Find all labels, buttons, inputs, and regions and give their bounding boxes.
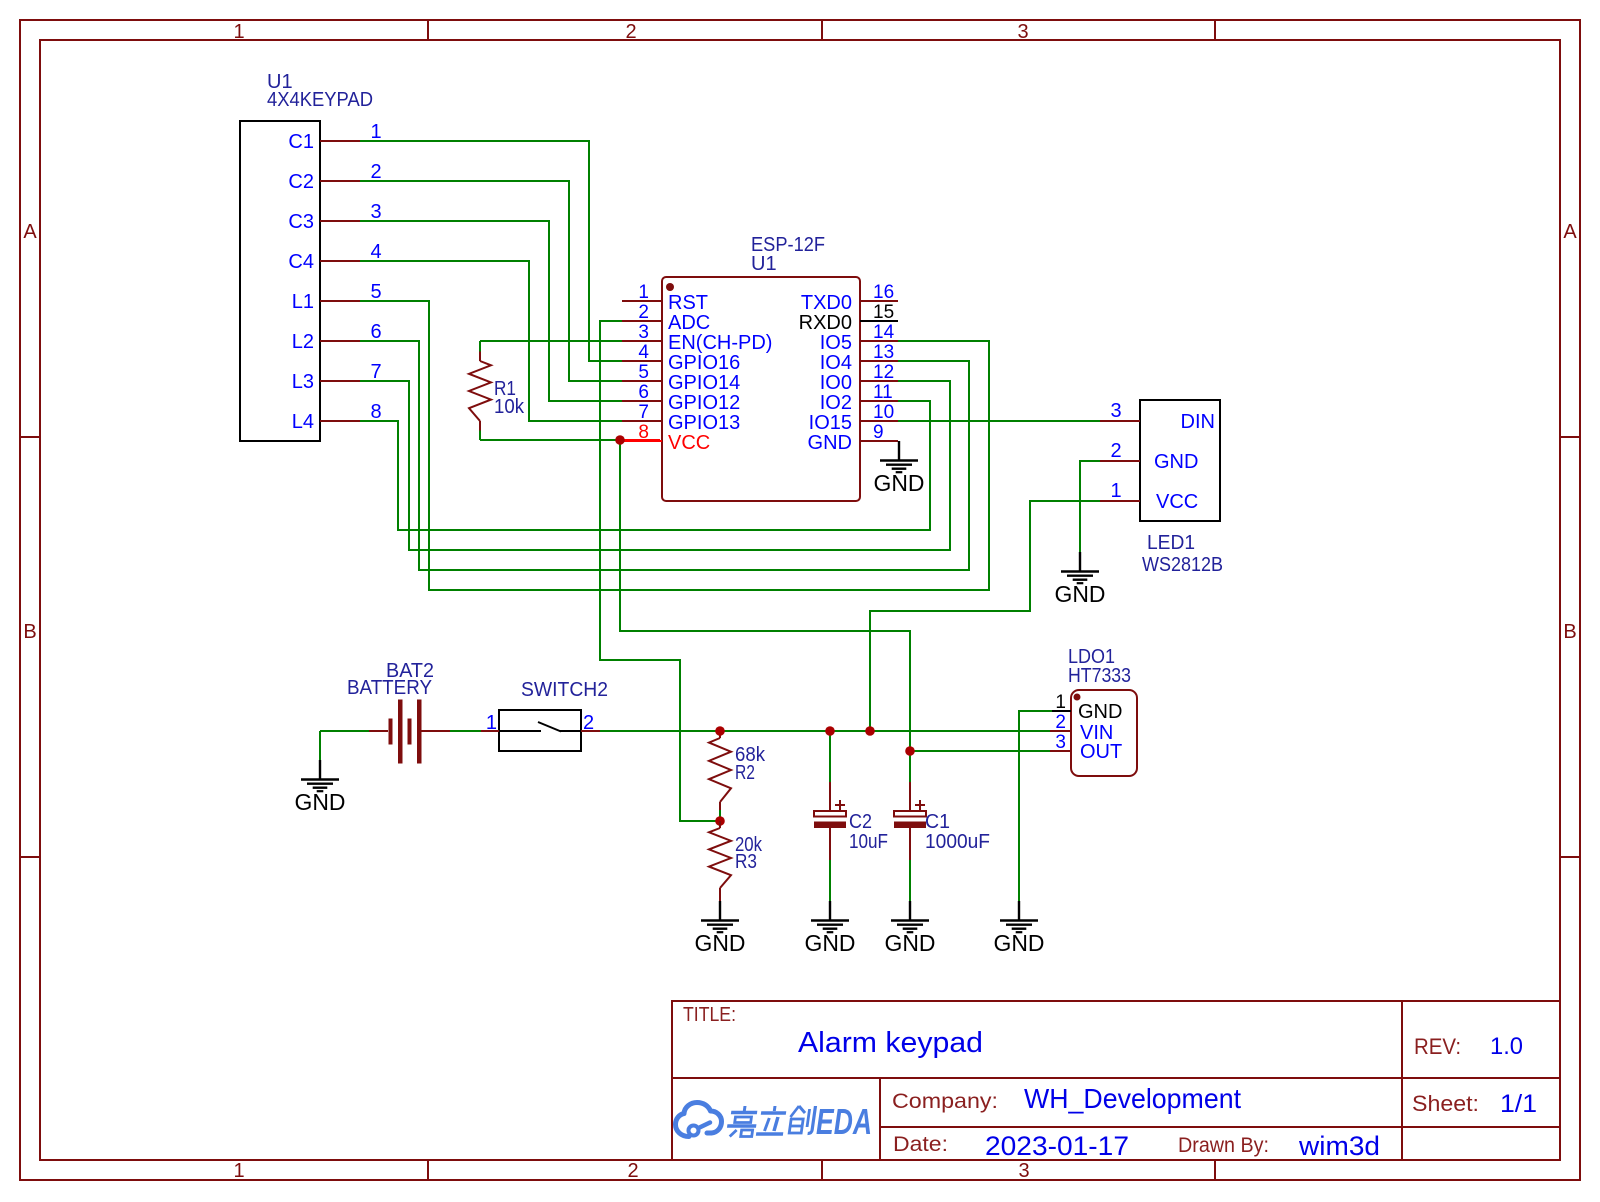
svg-text:GND: GND [805, 930, 856, 956]
keypad pin stub C2 (pin 2) [320, 180, 360, 182]
junction VBAT at LED1 VCC drop [865, 726, 875, 736]
wire L3 keypad pin7 to ESP IO0 [360, 381, 950, 550]
wire R2 bottom to divider node [719, 810, 721, 821]
svg-text:GND: GND [994, 930, 1045, 956]
svg-text:2: 2 [1055, 712, 1066, 733]
title block outline [672, 1001, 1560, 1160]
resistor R2 68k [719, 731, 721, 738]
svg-text:C1: C1 [288, 131, 314, 153]
keypad pin stub L3 (pin 7) [320, 380, 360, 382]
svg-text:IO2: IO2 [820, 392, 852, 414]
svg-text:IO15: IO15 [809, 412, 852, 434]
wire L1 keypad pin5 to ESP IO5 [360, 301, 989, 590]
JLC EDA logo cloud icon [676, 1103, 722, 1137]
ESP-12F pin stub 4 GPIO16 [622, 360, 662, 362]
svg-text:DIN: DIN [1181, 411, 1215, 433]
junction divider node R2/R3 [715, 816, 725, 826]
svg-text:GND: GND [295, 789, 346, 815]
svg-text:R3: R3 [735, 851, 757, 873]
wire R1 bottom to VCC node [480, 439, 618, 441]
svg-text:TITLE:: TITLE: [683, 1004, 736, 1026]
svg-text:3: 3 [370, 201, 381, 223]
frame bottom tick x=428 [427, 1160, 429, 1180]
frame right tick y=857 [1560, 856, 1580, 858]
svg-text:2: 2 [1110, 440, 1121, 462]
svg-text:3: 3 [1110, 400, 1121, 422]
wire VCC node down to 3V3 rail [620, 444, 910, 751]
svg-text:8: 8 [370, 401, 381, 423]
svg-text:WS2812B: WS2812B [1142, 554, 1223, 576]
svg-text:10: 10 [873, 402, 894, 423]
resistor R1 10k [479, 341, 481, 352]
svg-text:3: 3 [1055, 732, 1066, 753]
switch SWITCH2 pin 2 stub [581, 730, 600, 732]
ESP-12F pin stub 3 EN(CH-PD) [622, 340, 662, 342]
svg-text:A: A [23, 221, 37, 243]
svg-text:VCC: VCC [668, 432, 710, 454]
wire R1 top to ESP EN(CH-PD) [480, 340, 622, 342]
svg-text:4: 4 [638, 342, 649, 363]
wire LED1 VCC to VBAT rail [870, 501, 1100, 731]
svg-text:GND: GND [885, 930, 936, 956]
svg-text:C1: C1 [925, 811, 950, 833]
keypad pin stub L2 (pin 6) [320, 340, 360, 342]
svg-text:B: B [1563, 621, 1576, 643]
svg-text:9: 9 [873, 422, 884, 443]
ESP-12F pin stub 9 GND [860, 440, 898, 442]
ESP-12F pin stub 14 IO5 [860, 340, 898, 342]
wire battery negative to ground [320, 730, 369, 732]
wire L2 keypad pin6 to ESP IO4 [360, 341, 969, 570]
frame top tick x=428 [427, 20, 429, 40]
svg-text:LED1: LED1 [1147, 532, 1195, 554]
svg-text:VCC: VCC [1156, 491, 1198, 513]
svg-text:GND: GND [1078, 701, 1122, 723]
svg-text:GPIO16: GPIO16 [668, 352, 740, 374]
ground symbol at C2 [811, 901, 849, 932]
svg-text:1000uF: 1000uF [925, 831, 990, 853]
wire down to battery ground [319, 731, 321, 760]
svg-text:HT7333: HT7333 [1068, 665, 1131, 687]
junction 3V3 rail at C1 [905, 746, 915, 756]
wire ESP ADC to R2/R3 divider node [600, 321, 716, 821]
svg-text:GND: GND [695, 930, 746, 956]
LED1 pin stub 1 VCC [1100, 500, 1140, 502]
ESP-12F pin stub 13 IO4 [860, 360, 898, 362]
wire ESP VCC pin stub red [622, 439, 660, 441]
JLC EDA logo character chuang [788, 1106, 815, 1134]
wire C3 keypad pin3 to ESP GPIO12 [360, 221, 622, 401]
LDO1 pin 2 stub VIN [1050, 730, 1071, 732]
C2 top plate [814, 811, 846, 817]
svg-text:Drawn By:: Drawn By: [1178, 1134, 1269, 1157]
title block vertical divider left of REV/Sheet column [1401, 1001, 1403, 1160]
C1 bottom lead [909, 828, 911, 860]
keypad pin stub C3 (pin 3) [320, 220, 360, 222]
svg-text:1/1: 1/1 [1500, 1090, 1537, 1118]
svg-text:6: 6 [370, 321, 381, 343]
frame bottom tick x=822 [821, 1160, 823, 1180]
keypad pin stub L4 (pin 8) [320, 420, 360, 422]
svg-text:IO0: IO0 [820, 372, 852, 394]
ground symbol at R3 [701, 901, 739, 932]
svg-text:7: 7 [638, 402, 649, 423]
svg-text:REV:: REV: [1414, 1034, 1461, 1059]
svg-text:GPIO13: GPIO13 [668, 412, 740, 434]
svg-text:GND: GND [874, 470, 925, 496]
wire C1 to ground [909, 860, 911, 901]
svg-text:RST: RST [668, 292, 708, 314]
ground symbol at ESP-12F pin 9 GND [880, 441, 918, 472]
ESP-12F pin1 marker dot [666, 283, 674, 291]
ground symbol at battery [301, 760, 339, 791]
ESP-12F pin stub 7 GPIO13 [622, 420, 662, 422]
wire C1 keypad pin1 to ESP GPIO16 [360, 141, 622, 361]
title block horizontal divider under TITLE row [672, 1077, 1560, 1079]
keypad pin stub L1 (pin 5) [320, 300, 360, 302]
JLC EDA logo character li [756, 1106, 787, 1134]
switch SWITCH2 right contact [560, 730, 581, 732]
ESP-12F pin stub 2 ADC [622, 320, 662, 322]
svg-text:L4: L4 [292, 411, 314, 433]
svg-text:GND: GND [1154, 451, 1198, 473]
title block horizontal divider under Company row [880, 1126, 1560, 1128]
svg-text:1: 1 [1110, 480, 1121, 502]
ESP-12F pin stub 15 RXD0 [860, 320, 898, 322]
ESP-12F pin stub 5 GPIO14 [622, 380, 662, 382]
C2 plus sign [835, 804, 845, 806]
frame top tick x=822 [821, 20, 823, 40]
switch SWITCH2 fixed contact [499, 730, 541, 732]
svg-text:3: 3 [638, 322, 649, 343]
switch SWITCH2 lever [538, 722, 561, 732]
svg-text:3: 3 [1018, 1160, 1029, 1182]
wire L4 keypad pin8 to ESP IO2 [360, 401, 930, 530]
svg-text:C4: C4 [288, 251, 314, 273]
svg-text:C2: C2 [288, 171, 314, 193]
wire LED1 GND pin to ground [1080, 461, 1100, 552]
ESP-12F pin stub 12 IO0 [860, 380, 898, 382]
keypad U1 body [240, 121, 320, 441]
LED1 WS2812B body [1140, 400, 1220, 521]
svg-text:GND: GND [808, 432, 852, 454]
wire LDO GND pin to ground [1019, 711, 1052, 901]
ESP-12F U1 body [662, 277, 860, 501]
svg-text:WH_Development: WH_Development [1024, 1083, 1241, 1114]
svg-text:1: 1 [233, 1160, 244, 1182]
LED1 pin stub 3 DIN [1100, 420, 1140, 422]
svg-text:2: 2 [583, 712, 594, 734]
svg-text:RXD0: RXD0 [799, 312, 852, 334]
frame left tick y=857 [20, 856, 40, 858]
ESP-12F pin stub 11 IO2 [860, 400, 898, 402]
svg-text:B: B [23, 621, 36, 643]
svg-text:11: 11 [873, 382, 893, 403]
svg-text:14: 14 [873, 322, 895, 343]
frame left tick y=437 [20, 436, 40, 438]
junction VBAT at R2 top [715, 726, 725, 736]
C1 plus sign [915, 804, 925, 806]
wire ESP IO15 to LED1 DIN [898, 420, 1100, 422]
switch SWITCH2 pin 1 stub [481, 730, 499, 732]
capacitor C2 10uF [829, 731, 831, 782]
battery BAT2 right lead [422, 730, 451, 732]
wire 3V3 rail to LDO OUT [910, 750, 1050, 752]
svg-text:Sheet:: Sheet: [1412, 1091, 1479, 1116]
junction VBAT at C2 [825, 726, 835, 736]
frame right tick y=437 [1560, 436, 1580, 438]
svg-text:7: 7 [370, 361, 381, 383]
svg-text:Company:: Company: [892, 1090, 998, 1113]
svg-text:wim3d: wim3d [1298, 1131, 1380, 1161]
svg-text:1: 1 [486, 712, 497, 734]
wire C2 to ground [829, 860, 831, 901]
ESP-12F pin stub 6 GPIO12 [622, 400, 662, 402]
svg-text:L2: L2 [292, 331, 314, 353]
svg-text:C3: C3 [288, 211, 314, 233]
svg-text:4: 4 [370, 241, 381, 263]
svg-text:1: 1 [638, 282, 649, 303]
svg-text:Alarm keypad: Alarm keypad [798, 1027, 983, 1059]
svg-text:2023-01-17: 2023-01-17 [985, 1131, 1129, 1161]
svg-text:BATTERY: BATTERY [347, 677, 432, 699]
ESP-12F pin stub 8 VCC [622, 440, 662, 442]
junction VCC node at ESP pin 8 [615, 435, 625, 445]
LDO1 pin1 marker dot [1074, 694, 1081, 701]
svg-text:5: 5 [638, 362, 649, 383]
svg-text:2: 2 [638, 302, 649, 323]
C1 top plate [894, 811, 926, 817]
keypad pin stub C1 (pin 1) [320, 140, 360, 142]
svg-text:SWITCH2: SWITCH2 [521, 679, 608, 701]
ground symbol at C1 [891, 901, 929, 932]
svg-text:GPIO12: GPIO12 [668, 392, 740, 414]
switch SWITCH2 body [499, 710, 581, 751]
svg-text:EN(CH-PD): EN(CH-PD) [668, 332, 772, 354]
svg-text:6: 6 [638, 382, 649, 403]
svg-text:A: A [1563, 221, 1577, 243]
svg-text:1: 1 [233, 21, 244, 43]
svg-text:10k: 10k [494, 396, 525, 418]
svg-text:TXD0: TXD0 [801, 292, 852, 314]
svg-text:EDA: EDA [816, 1101, 872, 1142]
svg-text:13: 13 [873, 342, 894, 363]
svg-text:C2: C2 [849, 811, 872, 833]
svg-text:1: 1 [1055, 692, 1066, 713]
svg-text:1: 1 [370, 121, 381, 143]
frame bottom tick x=1215 [1214, 1160, 1216, 1180]
keypad pin stub C4 (pin 4) [320, 260, 360, 262]
ground symbol at LED1 [1061, 552, 1099, 583]
svg-text:L3: L3 [292, 371, 314, 393]
svg-text:12: 12 [873, 362, 894, 383]
ground symbol at LDO1 [1000, 901, 1038, 932]
wire VBAT rail switch to LDO VIN [600, 730, 1050, 732]
ESP-12F pin stub 16 TXD0 [860, 300, 898, 302]
svg-text:1.0: 1.0 [1490, 1033, 1523, 1060]
svg-text:GPIO14: GPIO14 [668, 372, 740, 394]
svg-text:Date:: Date: [893, 1133, 948, 1156]
LDO1 pin 1 stub GND [1050, 710, 1071, 712]
svg-text:5: 5 [370, 281, 381, 303]
battery BAT2 plates [389, 700, 422, 764]
svg-text:16: 16 [873, 282, 894, 303]
svg-text:L1: L1 [292, 291, 314, 313]
svg-text:IO4: IO4 [820, 352, 852, 374]
svg-text:ADC: ADC [668, 312, 710, 334]
svg-text:2: 2 [370, 161, 381, 183]
title block vertical divider right of logo cell [879, 1078, 881, 1160]
wire battery to switch [450, 730, 481, 732]
resistor R3 20k [719, 821, 721, 828]
LDO1 HT7333 body [1071, 690, 1137, 776]
battery BAT2 left lead [369, 730, 388, 732]
LDO1 pin 3 stub OUT [1050, 750, 1071, 752]
LED1 pin stub 2 GND [1100, 460, 1140, 462]
ESP-12F pin stub 1 RST [622, 300, 662, 302]
svg-text:2: 2 [627, 1160, 638, 1182]
svg-text:4X4KEYPAD: 4X4KEYPAD [267, 89, 373, 111]
frame top tick x=1215 [1214, 20, 1216, 40]
svg-text:R2: R2 [735, 762, 755, 784]
svg-text:IO5: IO5 [820, 332, 852, 354]
wire C2 keypad pin2 to ESP GPIO14 [360, 181, 622, 381]
svg-text:10uF: 10uF [849, 831, 888, 853]
svg-text:GND: GND [1055, 581, 1106, 607]
JLC EDA logo character jia [726, 1106, 759, 1137]
svg-text:U1: U1 [751, 253, 777, 275]
C2 bottom lead [829, 828, 831, 860]
svg-text:OUT: OUT [1080, 741, 1122, 763]
svg-text:2: 2 [625, 21, 636, 43]
svg-text:15: 15 [873, 302, 894, 323]
capacitor C1 1000uF [909, 751, 911, 782]
svg-text:3: 3 [1017, 21, 1028, 43]
ESP-12F pin stub 10 IO15 [860, 420, 898, 422]
wire C4 keypad pin4 to ESP GPIO13 [360, 261, 622, 421]
